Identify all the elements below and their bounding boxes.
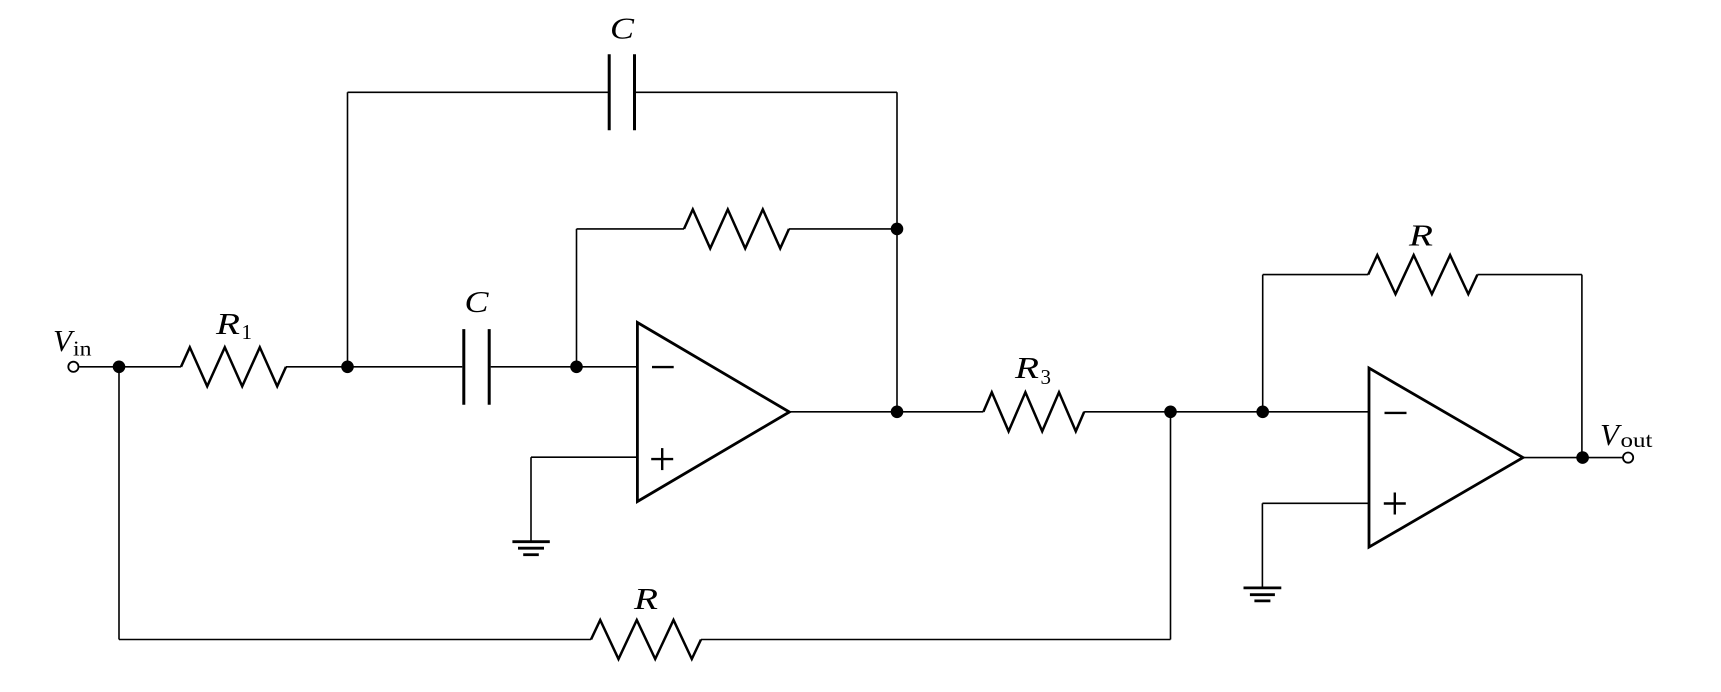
wire bottom rail right segment <box>701 639 1171 641</box>
node F (op-amp 2 inverting input junction) <box>1256 406 1269 419</box>
resistor R2 (middle feedback, unlabeled) <box>684 209 789 248</box>
svg-text:1: 1 <box>242 320 253 344</box>
op-amp U2 minus pin label <box>1385 412 1407 414</box>
op-amp U1 <box>637 323 789 502</box>
wire top rail left segment <box>348 91 609 93</box>
wire feedback rail right segment <box>1477 274 1582 276</box>
wire bottom rail left segment <box>119 639 591 641</box>
resistor R (bottom feedback) <box>591 620 701 659</box>
op-amp U1 minus pin label <box>652 366 674 368</box>
wire R3 to node E <box>1084 411 1170 413</box>
wire top rail right segment <box>636 91 897 93</box>
wire node B to capacitor C2 <box>348 366 463 368</box>
ground (op-amp 2) <box>1244 588 1282 601</box>
wire op-amp 1 output to node D <box>789 411 897 413</box>
svg-text:V: V <box>53 323 75 358</box>
label R_1 <box>215 306 252 344</box>
resistor R (op-amp 2 feedback) <box>1368 255 1477 294</box>
wire right rail down <box>896 92 898 412</box>
capacitor C (series input) <box>464 329 489 405</box>
wire node B up to top rail <box>347 92 349 367</box>
svg-text:R: R <box>1408 218 1433 253</box>
wire bottom rail up to node A <box>118 367 120 640</box>
wire feedback rail left segment <box>1263 274 1369 276</box>
node E (bottom feedback junction) <box>1164 406 1177 419</box>
label V_out <box>1600 417 1653 452</box>
node B <box>341 361 354 374</box>
svg-text:C: C <box>465 284 489 319</box>
resistor R1 <box>181 347 286 386</box>
node at middle rail / right rail junction <box>891 223 904 236</box>
label V_in <box>53 323 92 361</box>
wire node C to op-amp 1 minus pin <box>577 366 638 368</box>
wire node G to Vout terminal <box>1583 457 1623 459</box>
node D (op-amp 1 output junction) <box>891 406 904 419</box>
svg-text:in: in <box>73 337 92 361</box>
wire R1 to node B <box>286 366 348 368</box>
ground (op-amp 1) <box>512 542 549 555</box>
wire node F up to feedback rail <box>1262 275 1264 412</box>
svg-text:R: R <box>633 581 658 616</box>
wire node E down to bottom rail <box>1170 412 1172 640</box>
op-amp U2 <box>1369 368 1523 547</box>
op-amp U1 plus pin label <box>651 448 673 470</box>
node G (output junction) <box>1576 451 1589 464</box>
input terminal V_in <box>68 362 78 372</box>
op-amp U2 plus pin label <box>1384 493 1406 515</box>
svg-text:3: 3 <box>1041 365 1052 389</box>
wire middle rail right segment <box>789 228 897 230</box>
wire node A to R1 <box>119 366 181 368</box>
wire middle rail left segment <box>577 228 685 230</box>
output terminal V_out <box>1623 453 1633 463</box>
wire node D to R3 <box>897 411 983 413</box>
wire capacitor to node C <box>491 366 577 368</box>
wire node E to node F <box>1171 411 1263 413</box>
svg-text:V: V <box>1600 417 1622 452</box>
wire op-amp 1 plus pin to ground <box>531 457 637 540</box>
resistor R3 <box>983 392 1084 431</box>
svg-text:R: R <box>1014 350 1039 385</box>
node A (input junction) <box>113 361 126 374</box>
wire Vin to node A <box>79 366 119 368</box>
wire node C up to middle rail <box>576 229 578 367</box>
svg-text:C: C <box>610 11 634 46</box>
svg-text:R: R <box>215 306 240 341</box>
node C (op-amp 1 inverting input) <box>570 361 583 374</box>
wire feedback rail down to node G <box>1581 275 1583 458</box>
wire op-amp 2 output to node G <box>1523 457 1583 459</box>
capacitor C (top feedback) <box>609 54 634 130</box>
wire op-amp 2 plus pin to ground <box>1262 503 1369 587</box>
label R_3 <box>1014 350 1051 389</box>
wire node F to op-amp 2 minus pin <box>1263 411 1369 413</box>
svg-text:out: out <box>1621 428 1653 452</box>
